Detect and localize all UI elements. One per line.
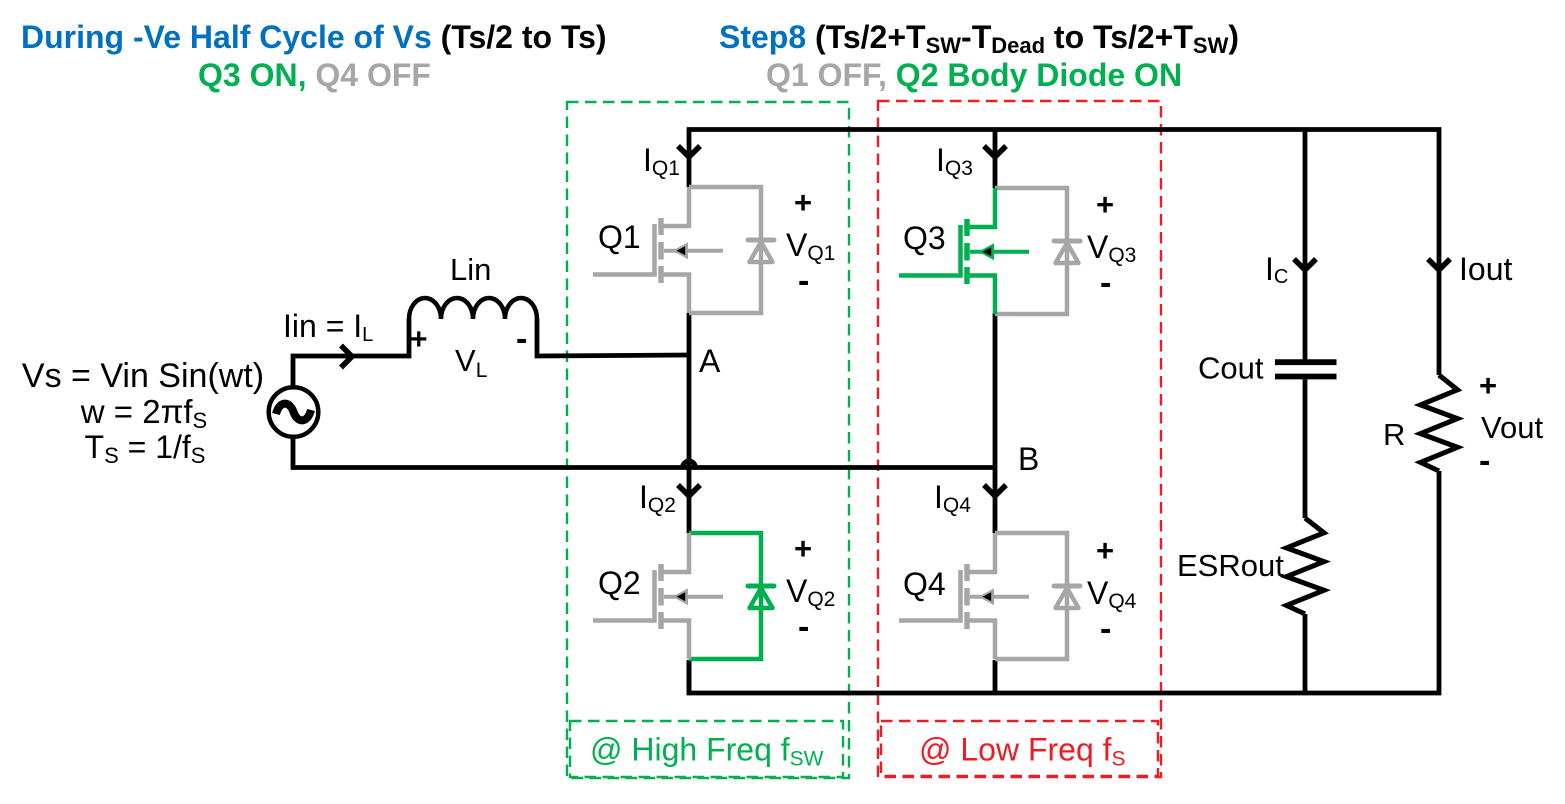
svg-text:-: - (1100, 610, 1111, 648)
svg-text:Lin: Lin (450, 252, 491, 287)
svg-text:+: + (794, 531, 812, 566)
svg-text:IC: IC (1265, 251, 1288, 288)
svg-text:Vs = Vin Sin(wt): Vs = Vin Sin(wt) (22, 357, 264, 395)
svg-text:-: - (1100, 264, 1111, 302)
svg-text:IQ2: IQ2 (639, 479, 676, 517)
svg-text:A: A (699, 343, 721, 379)
svg-text:Q3 ON, Q4 OFF: Q3 ON, Q4 OFF (198, 57, 431, 93)
svg-text:+: + (410, 323, 428, 356)
svg-text:Iout: Iout (1459, 251, 1512, 287)
svg-text:IQ3: IQ3 (936, 142, 973, 180)
svg-text:ESRout: ESRout (1177, 548, 1284, 583)
svg-text:Q1: Q1 (598, 219, 641, 255)
svg-text:VQ3: VQ3 (1087, 229, 1136, 267)
svg-text:R: R (1383, 417, 1405, 452)
svg-text:VQ1: VQ1 (786, 227, 835, 265)
svg-text:w = 2πfS: w = 2πfS (80, 393, 207, 433)
svg-text:+: + (1096, 533, 1114, 568)
svg-text:Iin = IL: Iin = IL (283, 308, 373, 346)
svg-text:VQ4: VQ4 (1087, 575, 1137, 613)
svg-text:+: + (1096, 187, 1114, 222)
svg-text:VL: VL (455, 343, 487, 382)
svg-text:-: - (516, 320, 527, 358)
svg-text:+: + (794, 185, 812, 220)
svg-text:Step8 (Ts/2+TSW​-TDead​ to Ts/: Step8 (Ts/2+TSW​-TDead​ to Ts/2+TSW​) (719, 19, 1239, 58)
svg-text:Cout: Cout (1198, 351, 1264, 386)
svg-text:IQ1: IQ1 (643, 142, 680, 180)
svg-text:Q1 OFF, Q2 Body Diode ON: Q1 OFF, Q2 Body Diode ON (766, 57, 1182, 93)
svg-text:Vout: Vout (1481, 410, 1543, 445)
svg-text:+: + (1479, 368, 1497, 403)
svg-text:@ Low Freq fS: @ Low Freq fS (919, 732, 1126, 771)
svg-text:B: B (1018, 441, 1039, 477)
svg-text:-: - (798, 608, 809, 646)
svg-text:TS​ = 1/fS: TS​ = 1/fS (85, 429, 206, 468)
svg-text:Q2: Q2 (598, 565, 641, 601)
svg-text:@ High Freq fSW: @ High Freq fSW (590, 732, 824, 771)
svg-text:-: - (1479, 442, 1490, 480)
svg-text:During -Ve Half Cycle of Vs (T: During -Ve Half Cycle of Vs (Ts/2 to Ts) (21, 19, 607, 55)
svg-text:Q3: Q3 (903, 220, 946, 256)
svg-text:IQ4: IQ4 (934, 479, 971, 517)
svg-text:VQ2: VQ2 (786, 573, 835, 611)
svg-text:-: - (798, 262, 809, 300)
svg-text:Q4: Q4 (903, 566, 946, 602)
